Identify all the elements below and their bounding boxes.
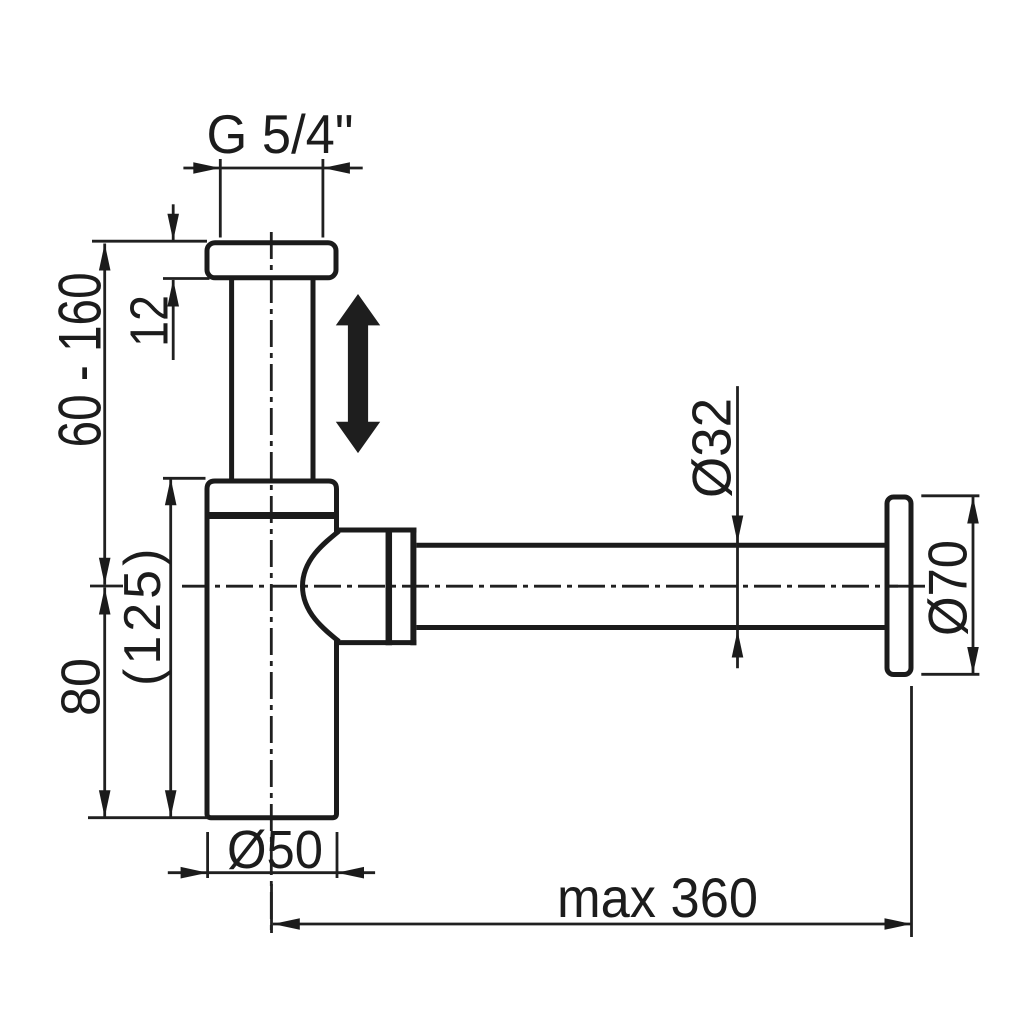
dim max 360: dimension line [273, 923, 912, 926]
body joint line [207, 512, 337, 519]
svg-text:12: 12 [120, 295, 180, 347]
dim O50: extension ticks [206, 832, 209, 878]
dim (125): extension line [163, 477, 206, 480]
svg-text:max 360: max 360 [557, 866, 758, 929]
dim 12: extension lines [92, 240, 207, 243]
wall rosette [887, 497, 911, 675]
svg-text:80: 80 [50, 658, 112, 716]
horizontal centerline [182, 585, 898, 588]
dim G 5/4: dimension line [183, 167, 362, 170]
body [207, 481, 337, 818]
elbow top edge [334, 528, 416, 533]
outlet pipe [416, 543, 886, 548]
elbow bottom edge [334, 640, 416, 645]
elbow dome [303, 531, 340, 642]
dim (125): dimension line [169, 478, 172, 817]
dim max 360: extension lines [270, 884, 273, 933]
top nut [207, 243, 336, 278]
svg-text:Ø32: Ø32 [681, 398, 743, 498]
svg-text:(125): (125) [114, 545, 172, 686]
svg-text:Ø70: Ø70 [917, 540, 979, 636]
svg-text:60 - 160: 60 - 160 [47, 272, 114, 447]
svg-text:G 5/4": G 5/4" [207, 103, 354, 165]
collar line 1 [386, 528, 393, 646]
dim 12: dimension line [172, 204, 175, 240]
dim 60-160: tick at centerline [90, 585, 123, 588]
bottom extension line [88, 816, 207, 819]
dim 80: dimension line [103, 588, 106, 818]
collar line 2 [410, 528, 416, 646]
dim G 5/4: extension lines [219, 159, 222, 238]
adjustment double arrow [336, 294, 380, 453]
dim 60-160: dimension line [103, 244, 106, 585]
dim O50: dimension line [168, 871, 375, 874]
dim O70: dimension line [972, 497, 975, 674]
vertical centerline [270, 232, 273, 933]
top pipe [229, 278, 234, 481]
dim O70: extension lines [921, 494, 979, 497]
dim O32: dimension line [736, 386, 739, 668]
svg-text:Ø50: Ø50 [227, 820, 323, 880]
